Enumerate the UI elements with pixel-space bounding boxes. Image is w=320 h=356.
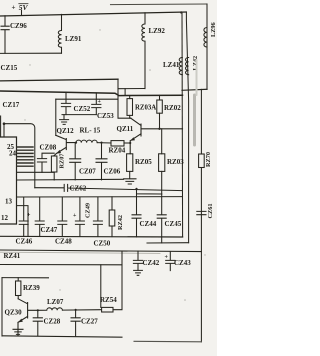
svg-text:RZ70: RZ70 <box>205 152 212 167</box>
svg-text:CZ96: CZ96 <box>10 22 27 30</box>
wire sub rail y99 <box>56 98 118 100</box>
svg-text:CZ50: CZ50 <box>94 239 111 247</box>
wire rail y236 <box>0 235 183 238</box>
transistor QZ11 <box>130 118 182 153</box>
capacitor CZ62 <box>35 184 183 191</box>
svg-text:LZ07: LZ07 <box>47 298 64 306</box>
wire right vertical from top line <box>206 4 208 89</box>
svg-text:CZ27: CZ27 <box>81 318 98 326</box>
wire QZ12 collector vertical <box>55 99 57 135</box>
svg-text:CZ53: CZ53 <box>97 112 114 120</box>
capacitor CZ42 <box>133 251 142 270</box>
wire left edge stub <box>0 116 2 137</box>
resistor RZ02 <box>159 95 161 100</box>
wire vertical x122 <box>113 251 122 310</box>
capacitor CZ43 <box>166 252 175 271</box>
svg-text:CZ17: CZ17 <box>3 101 20 109</box>
svg-text:CZ47: CZ47 <box>41 226 58 234</box>
svg-text:CZ61: CZ61 <box>207 203 214 218</box>
resistor RZ07 <box>53 155 55 158</box>
svg-text:24: 24 <box>9 150 17 158</box>
svg-text:12: 12 <box>1 214 9 222</box>
wire rail right segment <box>182 89 207 90</box>
ground under CZ42 <box>134 270 143 275</box>
wire pin stub bus <box>17 147 33 166</box>
svg-text:LZ92: LZ92 <box>149 27 166 35</box>
capacitor CZ48 <box>58 197 67 236</box>
wire vertical LZ41 branch <box>181 12 184 237</box>
svg-text:RZ42: RZ42 <box>117 215 124 230</box>
svg-text:RZ02: RZ02 <box>164 104 181 112</box>
svg-text:CZ49: CZ49 <box>84 203 91 218</box>
capacitor CZ46 <box>19 197 28 236</box>
svg-text:+: + <box>165 255 169 261</box>
capacitor CZ44 <box>132 194 141 237</box>
inductor LZ07 <box>38 308 101 310</box>
svg-text:QZ30: QZ30 <box>5 308 23 316</box>
resistor RZ03A <box>129 96 131 99</box>
IC box edge <box>0 137 17 224</box>
capacitor CZ06 <box>96 143 107 180</box>
wire vertical x101 <box>100 265 102 308</box>
svg-text:CZ44: CZ44 <box>140 220 157 228</box>
capacitor CZ52 <box>61 92 70 114</box>
resistor RZ04 <box>111 141 124 146</box>
resistor RZ42 <box>111 197 113 210</box>
svg-text:+: + <box>73 213 77 219</box>
wire QZ30 block top <box>2 277 49 279</box>
wire left vertical <box>1 278 3 336</box>
svg-text:CZ52: CZ52 <box>74 105 91 113</box>
wire top line to LZ96 <box>111 3 208 6</box>
svg-text:+: + <box>12 4 16 12</box>
wire rail y53 <box>0 52 62 54</box>
capacitor CZ61 <box>197 211 206 214</box>
svg-text:CZ45: CZ45 <box>165 220 182 228</box>
ground on emitter <box>13 329 23 334</box>
svg-text:5V: 5V <box>19 3 29 12</box>
svg-text:CZ15: CZ15 <box>1 64 18 72</box>
svg-text:CZ46: CZ46 <box>16 237 33 245</box>
svg-text:CZ07: CZ07 <box>79 168 96 176</box>
wire +5V tick <box>21 11 23 16</box>
svg-text:+: + <box>27 213 31 219</box>
capacitor CZ27 <box>71 310 80 336</box>
transistor QZ30 <box>18 299 38 336</box>
svg-text:QZ12: QZ12 <box>57 127 75 135</box>
svg-text:RZ39: RZ39 <box>23 284 40 292</box>
svg-text:RZ04: RZ04 <box>109 146 126 154</box>
wire IC top feed <box>4 124 35 188</box>
capacitor CZ45 <box>157 194 166 243</box>
capacitor CZ50 <box>93 197 102 236</box>
resistor RZ05 <box>129 153 131 155</box>
node junction RZ02/base <box>158 128 160 130</box>
svg-text:RZ05: RZ05 <box>135 158 152 166</box>
inductor RL-15 <box>76 140 97 143</box>
resistor RZ70 <box>200 89 202 154</box>
wire +5V rail <box>0 12 186 16</box>
wire CZ44/45 feed line <box>137 189 162 194</box>
wire vertical LZ42 branch <box>186 12 188 243</box>
wire jog tick x125 <box>124 89 126 95</box>
wire base line to RZ04 <box>97 142 111 144</box>
svg-text:RZ03A: RZ03A <box>135 105 156 112</box>
inductor LZ92 <box>142 13 145 89</box>
inductor LZ42 <box>186 58 189 75</box>
resistor RZ54 <box>102 307 113 312</box>
resistor RZ03 <box>161 129 163 154</box>
svg-text:CZ06: CZ06 <box>104 168 121 176</box>
svg-text:CZ08: CZ08 <box>40 144 57 152</box>
node junction dot <box>180 11 182 13</box>
inductor LZ41 <box>179 58 182 75</box>
transistor QZ12 <box>54 135 76 155</box>
wire vertical x118 <box>118 79 131 118</box>
svg-text:LZ91: LZ91 <box>65 35 82 43</box>
wire line y172 <box>17 171 54 173</box>
svg-text:CZ42: CZ42 <box>143 259 160 267</box>
wire main rail y91 <box>0 91 183 96</box>
wire cap bottoms line <box>62 114 96 116</box>
svg-text:RZ54: RZ54 <box>100 296 117 304</box>
capacitor CZ07 <box>70 143 81 180</box>
wire rail y80 <box>0 79 118 81</box>
ground under CZ52 <box>60 115 69 125</box>
wire rail y264 <box>0 264 122 266</box>
capacitor CZ28 <box>33 310 42 336</box>
ground under RZ05 <box>124 179 136 184</box>
inductor LZ91 <box>58 14 61 53</box>
wire rail y180 <box>17 178 124 181</box>
svg-text:LZ41: LZ41 <box>163 61 180 69</box>
wire bottom rail left <box>2 336 122 337</box>
svg-text:CZ62: CZ62 <box>70 184 87 192</box>
svg-text:RZ07: RZ07 <box>59 153 66 168</box>
capacitor CZ47 <box>35 197 44 236</box>
scan streak artifacts <box>24 29 205 301</box>
wire bottom rail right <box>134 340 201 343</box>
wire rail y197 <box>17 196 183 198</box>
svg-text:LZ42: LZ42 <box>192 56 199 71</box>
svg-text:CZ28: CZ28 <box>44 318 61 326</box>
wire rail y250 <box>0 250 201 252</box>
capacitor CZ49 <box>75 197 84 236</box>
svg-text:13: 13 <box>5 198 13 206</box>
resistor RZ39 <box>17 278 19 281</box>
svg-text:CZ48: CZ48 <box>55 237 72 245</box>
capacitor CZ96 <box>1 16 9 53</box>
wire y243 line <box>147 242 189 244</box>
svg-text:RZ03: RZ03 <box>167 158 184 166</box>
wire pin13 stub <box>17 206 28 237</box>
inductor LZ96 <box>204 28 207 48</box>
svg-text:QZ11: QZ11 <box>117 125 134 133</box>
svg-text:+: + <box>98 99 102 105</box>
wire LZ92 link line <box>118 88 145 90</box>
svg-text:LZ96: LZ96 <box>210 22 217 37</box>
svg-text:RZ41: RZ41 <box>4 252 21 260</box>
svg-text:CZ43: CZ43 <box>174 259 191 267</box>
capacitor CZ53 <box>92 93 101 115</box>
svg-text:RL- 15: RL- 15 <box>80 127 101 135</box>
